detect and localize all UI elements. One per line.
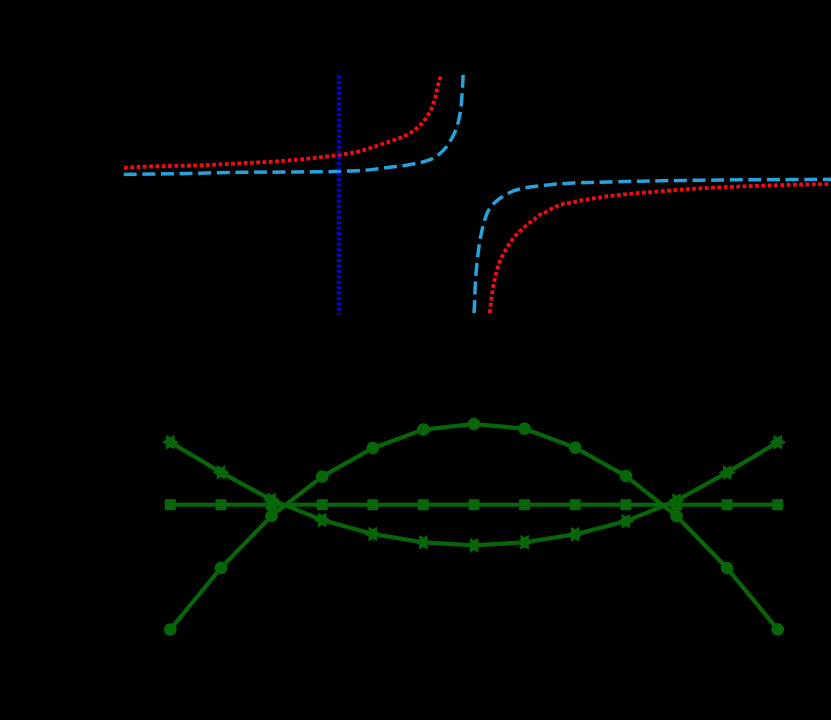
bottom plot: circle markers	[164, 418, 784, 636]
top plot: red dotted curve, right branch	[490, 184, 831, 313]
bottom plot: square markers	[165, 499, 783, 510]
top plot: vertical blue dotted line	[337, 76, 341, 315]
bottom plot: square-marker flat line	[170, 503, 777, 507]
bottom plot: circle-marker curve (wide cosine band)	[170, 424, 777, 630]
top plot: sky-blue dashed curve, right branch	[474, 179, 831, 313]
top plot: red dotted curve, left branch	[123, 77, 441, 168]
bottom plot: star markers	[162, 435, 786, 553]
bottom plot: star-marker curve (shallow band)	[170, 442, 777, 545]
top plot: sky-blue dashed curve, left branch	[123, 75, 463, 175]
